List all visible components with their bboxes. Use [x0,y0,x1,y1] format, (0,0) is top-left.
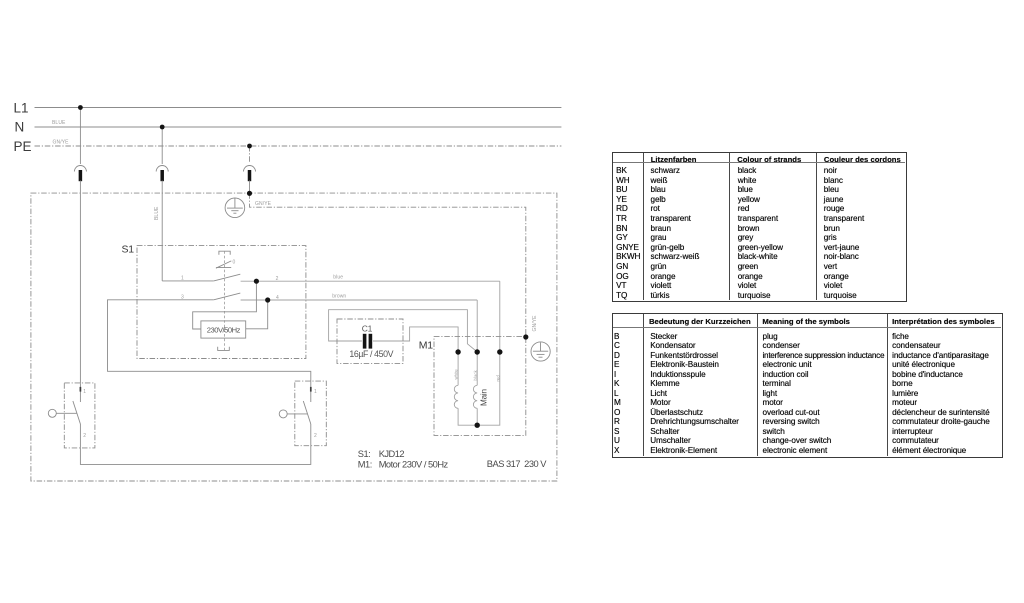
svg-text:white: white [453,369,458,380]
svg-text:M1:: M1: [358,460,372,470]
svg-text:GN/YE: GN/YE [532,315,538,332]
svg-text:blue: blue [333,275,343,281]
svg-text:N: N [15,120,25,135]
svg-text:M1: M1 [419,340,433,352]
svg-text:GN/YE: GN/YE [255,201,272,207]
svg-text:1: 1 [83,389,86,395]
svg-text:2: 2 [276,276,279,282]
svg-text:S1:: S1: [358,449,370,459]
svg-text:KJD12: KJD12 [379,449,405,459]
svg-text:C1: C1 [362,324,373,334]
svg-text:0: 0 [233,260,236,266]
svg-text:2: 2 [314,433,317,439]
svg-text:brown: brown [332,294,346,300]
svg-text:red: red [496,375,501,382]
svg-text:2: 2 [83,433,86,439]
svg-text:Motor 230V / 50Hz: Motor 230V / 50Hz [379,460,449,470]
svg-text:black: black [473,369,478,380]
svg-text:L1: L1 [14,100,29,115]
svg-text:PE: PE [14,139,32,154]
svg-text:BLUE: BLUE [52,120,66,126]
svg-text:BLUE: BLUE [154,206,160,220]
svg-text:16µF / 450V: 16µF / 450V [349,349,393,359]
svg-text:3: 3 [181,294,184,300]
svg-text:230V/50Hz: 230V/50Hz [207,325,241,334]
svg-text:4: 4 [276,295,279,301]
svg-text:GN/YE: GN/YE [53,140,70,146]
svg-text:1: 1 [314,389,317,395]
svg-text:1: 1 [181,276,184,282]
svg-text:BAS 317 230 V: BAS 317 230 V [487,459,547,469]
svg-text:Main: Main [479,389,488,406]
svg-text:S1: S1 [122,244,135,256]
